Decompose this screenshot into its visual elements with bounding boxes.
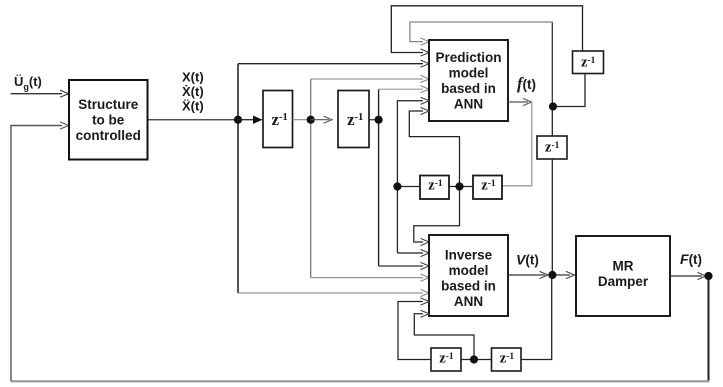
svg-text:V(t): V(t) [516,252,539,268]
label: f(t) output of prediction model [517,74,536,93]
svg-text:ANN: ANN [454,96,483,111]
wire: delay ZC output up into inverse input 6 [398,298,431,360]
svg-text:to be: to be [92,112,125,127]
delay block ZD [492,348,522,371]
delay block ZMR (middle right) [537,136,567,159]
wire: node V down to delay ZD (bottom feedback chain) [521,275,552,360]
wire: V(t-1) feedback line into prediction input 1 [410,22,553,106]
junction node A1 [393,182,401,190]
wire: delay ZD output to node B2 to delay ZC [461,359,492,361]
delay block Z2 [338,91,369,148]
wire: MR damper output F(t) [670,272,706,279]
delay block ZB [473,176,502,200]
wire: node B2 up-branch into inverse input 7 [414,310,474,359]
junction node B2 [470,355,478,363]
wire: prediction output f(t) arrow into vertical drop [503,98,532,185]
svg-text:model: model [449,66,489,81]
svg-text:controlled: controlled [76,128,141,143]
wire: node1 to delay Z1 with solid arrow [238,116,263,124]
delay block ZC [431,348,461,371]
svg-text:Inverse: Inverse [445,247,493,262]
wire: delay ZB output to node A2 to delay ZA [449,186,473,188]
wire: Ug(t) input into structure [11,90,69,97]
wire: top feedback V(t-2) line into prediction input 2 [391,6,582,56]
wire: node A1 vertical (up to prediction input 6, down to inverse input 2) [397,97,429,256]
wire: node A2 down-branch into inverse input 1 [414,187,460,246]
wire: delay ZA output to node A1 [397,186,420,188]
wire: node1 vertical tap (up to prediction input 3, down to inverse input 5) [238,60,429,297]
block: MR Damper [576,236,670,316]
delay block ZTR (top right) [573,51,604,74]
wire: node2 to delay Z2 with open arrow [311,116,332,123]
junction node V [548,271,556,279]
svg-text:ANN: ANN [454,294,483,309]
label: F(t) damper force [680,251,702,267]
wire: node V to MR damper [552,271,574,278]
wire: ZMR down to node V [551,159,553,275]
svg-text:X(t): X(t) [182,70,204,85]
wire: node F down into delay ZMR [551,107,553,137]
svg-text:Structure: Structure [78,97,139,112]
block: Inverse model based in ANN [429,235,508,316]
label: Ug(t) input signal [14,74,42,92]
block: Prediction model based in ANN [429,40,508,121]
wire: node A2 up-branch into prediction input 7 [409,107,459,186]
svg-text:Ẍ(t): Ẍ(t) [182,99,204,114]
wire: structure output main line to node 1 [148,119,235,121]
junction node 1 [234,116,242,124]
delay block Z1 [263,91,293,148]
junction node A2 [455,182,463,190]
svg-text:MR: MR [613,258,634,273]
svg-text:Prediction: Prediction [435,50,501,65]
wire: inverse output V(t) to node V [508,271,548,278]
junction node F (V(t-1) tap) [549,102,557,110]
wire: Z1 output to node 2 [293,119,311,121]
svg-text:Ẋ(t): Ẋ(t) [182,84,204,99]
svg-text:based in: based in [441,278,496,293]
junction node 3 [375,116,383,124]
junction node 2 [307,116,315,124]
wire: node3 vertical tap (up to prediction input 5, down to inverse input 3) [379,86,429,270]
wire: global feedback F(t) to structure input (right, bottom, left, top arrow) [11,122,710,381]
block: Structure to be controlled [69,80,148,160]
junction node Ft [704,272,712,280]
wire: node F right branch into delay ZTR [554,74,586,107]
svg-text:Damper: Damper [598,274,649,289]
wire: node2 vertical tap (up to prediction input 4, down to inverse input 4) [311,75,429,281]
label: V(t) control voltage [516,252,539,268]
svg-text:model: model [449,263,489,278]
label: X(t) state signals [182,70,204,114]
svg-text:f(t): f(t) [517,74,536,93]
delay block ZA [420,176,449,200]
svg-text:F(t): F(t) [680,251,702,267]
svg-text:based in: based in [441,81,496,96]
wire: Z2 output to node 3 [369,119,379,121]
